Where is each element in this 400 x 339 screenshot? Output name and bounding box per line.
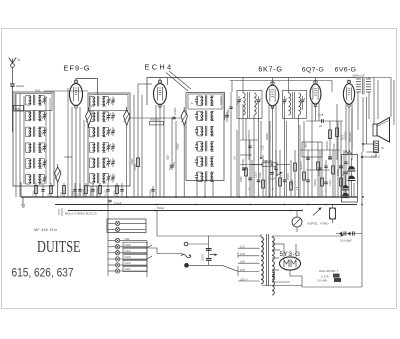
coupling capacitor 0.05uF (306, 113, 343, 128)
ground stub left (21, 182, 25, 207)
svg-text:140: 140 (240, 260, 245, 264)
svg-text:EF9-G: EF9-G (63, 64, 90, 73)
tuning capacitor C2a (pointer) (86, 107, 93, 128)
second top wire (230, 81, 332, 93)
svg-text:GC3: GC3 (125, 255, 132, 259)
svg-text:KOPTEL. FONO: KOPTEL. FONO (307, 222, 329, 226)
field coil 1700 ohm (361, 141, 385, 211)
capacitor 100pF antenna (10, 84, 24, 132)
bank1 left wires (16, 91, 88, 197)
svg-text:GC2: GC2 (40, 146, 42, 151)
svg-text:CVI 460: CVI 460 (317, 279, 328, 283)
6Q7 top cap wire (315, 78, 317, 81)
mains switch (181, 254, 191, 258)
mains feed wire (157, 211, 261, 249)
svg-text:5000: 5000 (113, 190, 116, 196)
label 5Y3-G (280, 251, 301, 258)
tube V5 6V6-G (343, 80, 354, 107)
RF coil L2c row 3 (90, 127, 116, 137)
grid resistor 500000 6V6 (325, 121, 332, 160)
aerial coil L1e row 5 (26, 158, 47, 168)
aerial coil L1f row 6 (26, 174, 47, 184)
power transformer primary (261, 234, 263, 284)
svg-text:0,1μF: 0,1μF (255, 171, 258, 178)
svg-text:ECH4: ECH4 (145, 63, 174, 72)
tube V3 6K7-G (266, 82, 279, 109)
svg-text:100pF: 100pF (16, 84, 25, 88)
T1 lead wires (239, 104, 259, 197)
svg-text:100pF: 100pF (173, 107, 177, 115)
T2 trimmers (282, 96, 305, 110)
switch contact GC2 (108, 260, 147, 267)
svg-text:250Ω: 250Ω (332, 144, 336, 150)
wave switch box MID (14, 106, 24, 112)
svg-text:GM: GM (35, 89, 40, 93)
label MF 460 KHz (34, 228, 57, 232)
tube V1 EF9-G (70, 80, 83, 108)
switch contact GC3 (108, 254, 147, 261)
svg-text:220 V: 220 V (240, 277, 248, 281)
svg-text:GC4: GC4 (40, 115, 42, 120)
wire band switch to mains (147, 248, 183, 254)
svg-text:0,1μF: 0,1μF (89, 189, 92, 196)
electrolytic capacitor C30 (348, 158, 356, 197)
RF coil L2a row 1 (90, 96, 116, 106)
IF transformer T1 primary (243, 78, 250, 119)
6K7 pin wires (269, 105, 276, 197)
svg-text:MELLO STEREO BLOCCO: MELLO STEREO BLOCCO (65, 212, 97, 216)
osc coil L3a row 1 (195, 95, 214, 105)
extra detail verticals right (237, 121, 354, 197)
svg-text:500000: 500000 (325, 141, 329, 150)
right vertical wires (356, 78, 394, 126)
svg-text:'E': 'E' (381, 146, 385, 150)
svg-text:0,1μF: 0,1μF (104, 189, 107, 196)
resistor 50000 ohm ECH4 grid (150, 117, 164, 125)
switch contact S1b (108, 227, 146, 231)
tube V4 6Q7-G (310, 81, 321, 107)
osc coil L3f row 6 (195, 171, 214, 181)
texture verticals right section (249, 108, 352, 197)
svg-text:25000: 25000 (202, 253, 205, 261)
small caps mid right (248, 146, 347, 168)
resistor network detail right (242, 110, 342, 197)
svg-text:100pF: 100pF (177, 143, 180, 150)
label ECH4 (145, 63, 174, 72)
label 6K7-G (258, 65, 282, 74)
svg-text:5000: 5000 (343, 134, 345, 140)
svg-text:DUITSE: DUITSE (37, 237, 81, 256)
svg-text:GC5: GC5 (125, 243, 132, 247)
svg-text:110: 110 (240, 245, 245, 249)
svg-text:0,1μF: 0,1μF (114, 201, 122, 205)
svg-text:25000: 25000 (291, 179, 294, 186)
svg-text:GM: GM (40, 100, 42, 104)
label 6V6-G (335, 67, 357, 74)
svg-text:50000Ω: 50000Ω (150, 117, 159, 121)
IF transformer T2 primary (289, 78, 295, 119)
pilot lamp / pickup circle (292, 211, 302, 232)
6K7 top cap wire (272, 78, 274, 82)
RF coil bank box (88, 93, 130, 186)
tone capacitor 6Q7 line (240, 121, 262, 165)
label CVI 460 with logo (317, 278, 341, 283)
5Y3 wires (272, 244, 302, 287)
svg-text:GC3: GC3 (40, 130, 42, 135)
IF transformer T2 box (283, 91, 307, 119)
resistor zigzag bottom left of speaker (345, 151, 352, 155)
tuning capacitor C2b (pointer) (124, 107, 131, 197)
switch contact GC1 (108, 266, 147, 273)
svg-text:0,1µF: 0,1µF (149, 189, 152, 196)
mains terminal bottom (185, 263, 222, 267)
svg-text:6Q7-G: 6Q7-G (302, 67, 324, 74)
tube V2 ECH4 (154, 80, 167, 107)
mains terminal top (184, 242, 209, 246)
osc bank bottom wires (197, 181, 213, 197)
svg-text:5000: 5000 (240, 176, 243, 182)
svg-text:50000: 50000 (266, 133, 269, 140)
ECH4 pin wires (156, 105, 164, 197)
svg-text:0,05: 0,05 (318, 113, 324, 117)
HT wire to filter (272, 234, 343, 236)
svg-text:0,25: 0,25 (263, 145, 265, 150)
IF transformer T1 box (237, 91, 262, 119)
aerial coil L1b row 2 (26, 111, 47, 121)
right bundle wires to speaker (362, 97, 374, 152)
svg-text:50µF: 50µF (71, 190, 74, 196)
svg-text:250: 250 (60, 191, 63, 196)
T1 trimmers (237, 96, 262, 106)
6V6 pin wires (346, 103, 352, 197)
svg-text:AGG 48 961 7: AGG 48 961 7 (319, 269, 339, 273)
junction dots on bus (57, 196, 364, 211)
micro labels scatter (131, 134, 345, 165)
bank2 bottom wires (91, 186, 97, 197)
FONO coupling capacitor (330, 205, 336, 224)
svg-text:16+16μF: 16+16μF (340, 239, 352, 243)
label U 13A with logo (321, 274, 340, 279)
svg-text:0,5μF: 0,5μF (329, 179, 332, 186)
mains voltage taps (238, 245, 260, 282)
svg-text:GC4: GC4 (125, 249, 132, 253)
svg-text:6K7-G: 6K7-G (258, 65, 282, 74)
svg-text:30μF: 30μF (167, 154, 170, 160)
label EF9-G (63, 64, 90, 73)
svg-text:MF 460 KHz: MF 460 KHz (34, 228, 57, 232)
electrolytic capacitor C31 (342, 175, 349, 198)
grid capacitor trimmer right of osc (225, 112, 229, 122)
EF9 top cap wire (76, 79, 98, 95)
RF coil L2d row 4 (90, 142, 116, 152)
svg-text:50000Ω: 50000Ω (345, 131, 348, 140)
tuning capacitor C3 (pointer) (181, 107, 188, 197)
svg-text:0,1: 0,1 (281, 174, 284, 178)
cathode resistor 6V6 (332, 104, 339, 160)
padder capacitor variable (169, 118, 176, 197)
antenna A (9, 58, 21, 84)
IF transformer T1 secondary (254, 93, 256, 197)
RF coil L2e row 5 (90, 157, 116, 167)
svg-text:500000Ω: 500000Ω (349, 132, 352, 142)
right return wire (262, 211, 362, 288)
svg-text:1MΩ: 1MΩ (306, 143, 308, 148)
loudspeaker (373, 118, 390, 143)
IF transformer T2 secondary (299, 93, 301, 197)
chassis bus line 3 (68, 210, 302, 212)
osc coil L3d row 4 (195, 141, 214, 151)
capacitor 0.1uF left of osc (149, 186, 155, 197)
output transformer T3 (356, 77, 371, 130)
svg-text:1MΩ: 1MΩ (259, 173, 262, 178)
svg-text:6V6-G: 6V6-G (335, 67, 357, 74)
svg-text:μF: μF (319, 124, 323, 128)
svg-text:500μF: 500μF (157, 206, 165, 210)
label KOPTEL FONO (307, 222, 329, 226)
resistor 500000 horizontal (250, 159, 290, 166)
aerial coil L1c row 3 (26, 126, 47, 136)
bus capacitor 0.1uF label (108, 200, 121, 205)
svg-text:500000: 500000 (96, 187, 99, 196)
AVC line bank2 to osc (130, 107, 181, 119)
label MELLO STEREO BLOCCO (59, 208, 97, 216)
RF coil L2b row 2 (90, 111, 116, 121)
svg-text:50000: 50000 (242, 158, 245, 166)
svg-text:OC1: OC1 (40, 178, 42, 183)
svg-text:125: 125 (240, 252, 245, 256)
aerial coil L1a row 1 (26, 95, 47, 105)
svg-text:GC2: GC2 (125, 261, 132, 265)
svg-text:5000 μμF: 5000 μμF (353, 74, 365, 78)
label 5000pF tone (353, 74, 365, 78)
svg-text:50000: 50000 (314, 179, 317, 186)
svg-text:25000: 25000 (287, 172, 290, 180)
osc coil L3b row 2 (195, 111, 214, 121)
svg-text:500000: 500000 (263, 159, 272, 163)
label 6Q7-G (302, 67, 324, 74)
electrolytic capacitor box (342, 155, 358, 203)
tap selector diagonal (222, 265, 238, 271)
resistor 500000 vertical right of osc (219, 92, 225, 120)
osc coil L3e row 5 (195, 156, 214, 166)
mid horizontal wires (240, 140, 340, 170)
chassis bus line 2 (55, 204, 357, 206)
svg-text:615, 626, 637: 615, 626, 637 (12, 266, 74, 280)
resistor 50000 right labels (345, 131, 353, 142)
svg-text:100pF: 100pF (131, 158, 134, 165)
chassis bus line 1 (21, 196, 357, 198)
svg-text:50pF: 50pF (226, 109, 230, 115)
filter capacitors 16+16uF (336, 231, 362, 242)
svg-text:GM: GM (125, 237, 130, 241)
band switch bracket (147, 241, 152, 277)
svg-text:25000: 25000 (82, 189, 85, 196)
ECH4 top frame wire (147, 71, 356, 105)
svg-text:GC1: GC1 (125, 267, 132, 271)
potentiometer arrow (313, 208, 322, 216)
svg-text:160: 160 (240, 268, 245, 272)
title DUITSE (37, 237, 81, 256)
switch contact GM (108, 237, 147, 243)
resistor 150 ohm vertical (133, 158, 140, 170)
voltage selector arrow (210, 253, 218, 256)
power transformer core (267, 234, 269, 286)
svg-text:500000: 500000 (300, 161, 303, 170)
svg-text:0,5M: 0,5M (32, 191, 35, 196)
osc coil L3c row 3 (195, 126, 214, 136)
svg-text:1700 Ω: 1700 Ω (371, 155, 380, 159)
power transformer secondary (272, 236, 274, 295)
RF coil L2f row 6 (90, 173, 116, 183)
oscillator coil bank box (186, 93, 224, 181)
bus capacitor label 2 (157, 206, 165, 210)
svg-text:500000: 500000 (219, 96, 223, 105)
band switch frame (107, 197, 146, 276)
6Q7 pin wires (312, 103, 319, 197)
bottom component row left (32, 183, 123, 197)
vertical wires mid-left (134, 78, 168, 198)
aerial coil L1d row 4 (26, 142, 47, 152)
capacitor 50pF osc (226, 92, 233, 197)
svg-text:50μF: 50μF (342, 170, 345, 176)
mains filter capacitors (202, 248, 212, 265)
svg-text:0,1μF: 0,1μF (269, 177, 276, 181)
aerial coil bank box (13, 89, 54, 187)
svg-text:GC1: GC1 (40, 162, 42, 167)
switch contact GC5 (108, 242, 147, 249)
switch contact GC4 (108, 248, 147, 255)
title model numbers 615 626 637 (12, 266, 74, 280)
label AGG number (319, 269, 339, 273)
svg-text:50000: 50000 (337, 168, 340, 176)
switch contact S1a (108, 221, 146, 225)
tube V6 5Y3-G rectifier (280, 257, 301, 270)
tuning capacitor C1 (pointer) (55, 164, 62, 197)
EF9 pin wires (64, 88, 84, 197)
